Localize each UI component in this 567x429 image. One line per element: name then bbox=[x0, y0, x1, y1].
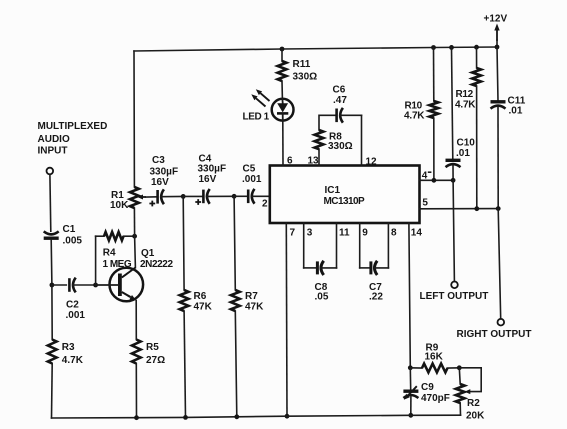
svg-text:.01: .01 bbox=[456, 148, 470, 159]
svg-text:Q1: Q1 bbox=[141, 248, 155, 259]
pin 3 label bbox=[307, 228, 313, 239]
wire right output line bbox=[498, 209, 501, 319]
wire C6 to pin 12 corner bbox=[340, 114, 362, 116]
svg-text:7: 7 bbox=[290, 228, 296, 239]
junction dot top rail / C10 bbox=[449, 45, 454, 50]
wire C5 to IC1 pin 2 bbox=[251, 195, 269, 197]
svg-text:.05: .05 bbox=[315, 292, 329, 303]
svg-text:.001: .001 bbox=[242, 174, 262, 185]
wire node A to C2 bbox=[52, 284, 66, 286]
svg-text:C9: C9 bbox=[421, 382, 434, 393]
resistor R2 bbox=[456, 368, 485, 422]
svg-text:16V: 16V bbox=[199, 174, 217, 185]
wire C2 to Q1 base node bbox=[73, 284, 96, 286]
svg-text:14: 14 bbox=[411, 228, 423, 239]
wire R8 to IC1 pin 13 bbox=[318, 149, 320, 165]
junction dot pin14 / R9 / C9 bbox=[408, 365, 413, 370]
wire input terminal to C1 bbox=[49, 174, 52, 231]
wire top rail down to R1 bbox=[133, 51, 135, 187]
wire node A down to R3 bbox=[51, 285, 53, 340]
capacitor C2 bbox=[66, 278, 86, 321]
junction dot bus / R7 bbox=[234, 414, 239, 419]
svg-text:C10: C10 bbox=[457, 138, 476, 149]
junction dot C9 / ground bus bbox=[408, 413, 413, 418]
op-amp U1 (IC1 MC1310P) bbox=[270, 166, 420, 224]
svg-text:2: 2 bbox=[262, 199, 268, 210]
svg-text:C2: C2 bbox=[66, 299, 79, 310]
svg-text:10K: 10K bbox=[110, 200, 129, 211]
capacitor C11 bbox=[491, 96, 526, 117]
capacitor C9 trimmer bbox=[403, 382, 450, 404]
wire R2 wiper loop bbox=[459, 368, 481, 392]
svg-text:.01: .01 bbox=[509, 106, 523, 117]
node LEFT OUTPUT terminal bbox=[420, 282, 489, 303]
wire IC1 pin 14 down bbox=[409, 223, 410, 368]
svg-text:R6: R6 bbox=[194, 291, 207, 302]
pin 2 label bbox=[262, 199, 268, 210]
wire C3 to node B bbox=[161, 195, 183, 197]
pin 6 label bbox=[287, 156, 293, 167]
svg-text:AUDIO: AUDIO bbox=[38, 134, 70, 145]
junction dot top rail / R11 bbox=[280, 47, 285, 52]
svg-text:4: 4 bbox=[422, 170, 428, 181]
resistor R1 potentiometer bbox=[110, 187, 146, 211]
wire C9 to ground bus bbox=[410, 397, 412, 415]
svg-text:INPUT: INPUT bbox=[38, 146, 68, 157]
junction dot pin5 / C11 / right output bbox=[496, 206, 501, 211]
pin 5 label bbox=[422, 197, 428, 208]
wire IC1 pin 9 down bbox=[359, 223, 361, 268]
svg-text:2N2222: 2N2222 bbox=[140, 259, 173, 270]
resistor R8 bbox=[315, 130, 353, 152]
pin 11 label bbox=[339, 228, 350, 239]
capacitor C1 bbox=[44, 224, 83, 246]
input terminal bbox=[47, 168, 54, 175]
node A junction dot (input line / C2) bbox=[50, 283, 55, 288]
wiper arrow of R2 bbox=[465, 389, 471, 394]
wire R1 to Q1 collector node bbox=[133, 208, 135, 236]
wire C10 to pin 4 wire bbox=[452, 166, 454, 181]
svg-text:.001: .001 bbox=[66, 310, 86, 321]
power +12V terminal bbox=[484, 13, 508, 47]
svg-text:.47: .47 bbox=[333, 95, 347, 106]
wire top +12V supply rail bbox=[134, 47, 497, 51]
svg-text:9: 9 bbox=[362, 228, 368, 239]
resistor R3 bbox=[48, 340, 84, 367]
wire top rail down to C11 bbox=[497, 47, 498, 101]
svg-text:R7: R7 bbox=[245, 291, 258, 302]
svg-text:330Ω: 330Ω bbox=[328, 141, 353, 152]
svg-text:R4: R4 bbox=[103, 248, 116, 259]
node RIGHT OUTPUT terminal bbox=[457, 319, 532, 340]
node B junction dot (C3/C4/R6) bbox=[181, 194, 186, 199]
capacitor C6 bbox=[333, 85, 348, 123]
svg-text:LED 1: LED 1 bbox=[243, 112, 270, 123]
wire R3 to ground bus bbox=[51, 364, 54, 419]
wire IC1 pin 5 output bbox=[420, 208, 499, 210]
svg-text:470pF: 470pF bbox=[421, 393, 450, 404]
wire ground bus bbox=[52, 415, 461, 418]
wire top rail down to R10 bbox=[433, 48, 435, 102]
wire IC1 pin 4 output bbox=[420, 179, 454, 181]
wire R5 to ground bus bbox=[135, 364, 137, 418]
wire C11 to pin 5 wire bbox=[497, 107, 499, 209]
junction dot R4 / collector line bbox=[132, 234, 137, 239]
wire top rail down to C10 bbox=[452, 47, 453, 159]
wire LED1 to IC1 pin 6 bbox=[282, 121, 284, 166]
svg-text:13: 13 bbox=[308, 156, 320, 167]
wire R10 to pin 4 wire bbox=[433, 118, 435, 180]
wire pin13 branch up to loop corner bbox=[319, 115, 336, 130]
pin 4 label bbox=[422, 170, 431, 181]
capacitor C5 bbox=[234, 164, 262, 204]
wire Q1 base node up to R4 bbox=[95, 236, 97, 285]
svg-text:16V: 16V bbox=[151, 177, 169, 188]
junction dot pin7 / ground bus bbox=[285, 414, 290, 419]
wire IC1 pin 8 down bbox=[387, 223, 389, 268]
wire top rail down to R11 bbox=[281, 49, 283, 61]
svg-text:6: 6 bbox=[287, 156, 293, 167]
svg-text:20K: 20K bbox=[466, 411, 485, 422]
svg-text:IC1: IC1 bbox=[325, 185, 341, 196]
wire IC1 pin 11 down bbox=[336, 223, 338, 268]
node C junction dot (C4/C5/R7) bbox=[232, 194, 237, 199]
svg-text:MULTIPLEXED: MULTIPLEXED bbox=[38, 121, 108, 132]
wire node B down to R6 bbox=[182, 196, 185, 290]
svg-text:MC1310P: MC1310P bbox=[324, 196, 365, 207]
svg-text:8: 8 bbox=[391, 228, 397, 239]
wire C4 to node C bbox=[207, 195, 235, 197]
svg-text:16K: 16K bbox=[425, 352, 444, 363]
capacitor C10 bbox=[446, 138, 476, 168]
junction dot bus / R6 bbox=[183, 415, 188, 420]
svg-text:R2: R2 bbox=[467, 398, 480, 409]
junction dot top rail / R10 bbox=[431, 45, 436, 50]
wire C6 loop to IC1 pin 12 bbox=[361, 115, 363, 165]
junction dot R9 / R2 bbox=[457, 365, 462, 370]
wire left output line bbox=[453, 180, 454, 281]
svg-text:C6: C6 bbox=[333, 85, 346, 96]
wire R12 to pin 5 wire bbox=[476, 86, 478, 209]
svg-text:LEFT OUTPUT: LEFT OUTPUT bbox=[420, 291, 489, 302]
svg-text:4.7K: 4.7K bbox=[62, 355, 84, 366]
wire R1 wiper to C3 bbox=[146, 196, 157, 198]
wire Q1 emitter to R5 bbox=[135, 301, 137, 340]
svg-text:5: 5 bbox=[422, 197, 428, 208]
svg-text:RIGHT OUTPUT: RIGHT OUTPUT bbox=[457, 329, 532, 340]
wire R4 node to Q1 collector bbox=[134, 236, 137, 267]
wire top rail down to R12 bbox=[476, 47, 478, 68]
svg-text:4.7K: 4.7K bbox=[455, 100, 476, 111]
svg-text:R3: R3 bbox=[62, 342, 75, 353]
wire R7 to ground bus bbox=[235, 311, 237, 417]
resistor R6 bbox=[180, 290, 213, 313]
resistor R12 bbox=[455, 68, 481, 111]
wire node C down to R7 bbox=[234, 196, 235, 290]
resistor R10 bbox=[404, 100, 438, 121]
wire R6 to ground bus bbox=[184, 311, 185, 417]
resistor R4 bbox=[96, 232, 135, 270]
wire C1 to node A bbox=[50, 240, 53, 285]
svg-text:27Ω: 27Ω bbox=[146, 355, 165, 366]
pin 9 label bbox=[362, 228, 368, 239]
resistor R5 bbox=[132, 340, 165, 367]
capacitor C7 bbox=[360, 261, 389, 303]
junction dot top rail / C11 bbox=[495, 45, 500, 50]
junction dot pin4 / C10 / left output bbox=[451, 178, 456, 183]
resistor R11 bbox=[278, 59, 318, 83]
svg-text:.22: .22 bbox=[369, 292, 383, 303]
resistor R7 bbox=[231, 290, 264, 313]
svg-text:+12V: +12V bbox=[484, 13, 508, 24]
svg-text:12: 12 bbox=[366, 157, 378, 168]
transistor Q1 bbox=[96, 248, 174, 301]
svg-text:R11: R11 bbox=[293, 59, 311, 70]
svg-text:3: 3 bbox=[307, 228, 313, 239]
svg-text:47K: 47K bbox=[245, 302, 264, 313]
junction dot top rail / R12 bbox=[474, 45, 479, 50]
capacitor C3 bbox=[149, 155, 178, 206]
pin 14 label bbox=[411, 228, 423, 239]
wire pin14 node down to C9 bbox=[409, 368, 411, 390]
svg-text:R5: R5 bbox=[146, 342, 159, 353]
junction dot pin4 / R10 bbox=[432, 178, 437, 183]
svg-text:47K: 47K bbox=[194, 302, 213, 313]
LED LED1 bbox=[243, 89, 294, 122]
junction dot pin5 / R12 bbox=[474, 206, 479, 211]
wire R11 to LED1 bbox=[281, 81, 283, 99]
svg-text:C1: C1 bbox=[63, 224, 76, 235]
svg-text:4.7K: 4.7K bbox=[404, 111, 425, 122]
pin 12 label bbox=[366, 157, 378, 168]
capacitor C4 bbox=[183, 153, 226, 205]
wire IC1 pin 3 down bbox=[303, 223, 305, 268]
svg-text:330Ω: 330Ω bbox=[293, 72, 318, 83]
pin 13 label bbox=[308, 156, 320, 167]
svg-text:C3: C3 bbox=[152, 155, 165, 166]
svg-text:.005: .005 bbox=[63, 235, 83, 246]
pin 8 label bbox=[391, 228, 397, 239]
svg-text:11: 11 bbox=[339, 228, 350, 239]
resistor R9 bbox=[410, 343, 459, 373]
pin 7 label bbox=[290, 228, 296, 239]
capacitor C8 bbox=[304, 261, 337, 303]
svg-text:R12: R12 bbox=[456, 89, 474, 100]
junction dot Q1 base / R4 bbox=[93, 283, 98, 288]
junction dot bus / R5 bbox=[134, 415, 139, 420]
wire IC1 pin 7 to ground bus bbox=[285, 223, 288, 416]
node MULTIPLEXED AUDIO INPUT label bbox=[38, 121, 108, 156]
